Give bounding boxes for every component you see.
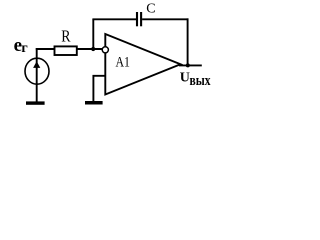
ground right xyxy=(85,101,103,105)
svg-text:C: C xyxy=(146,1,155,16)
svg-text:U: U xyxy=(180,71,190,86)
resistor R xyxy=(55,46,77,55)
wire feedback top left segment xyxy=(92,18,136,20)
wire output xyxy=(179,64,202,66)
wire feedback left vertical xyxy=(92,19,94,49)
wire non-inverting input xyxy=(93,76,104,101)
op-amp A1 triangle xyxy=(105,34,180,95)
label e_g (source EMF) xyxy=(14,35,28,56)
wire feedback right vertical xyxy=(187,18,189,65)
source arrow head xyxy=(33,61,40,68)
capacitor C plates xyxy=(137,12,141,26)
svg-text:R: R xyxy=(61,26,70,45)
label U_out xyxy=(180,71,211,89)
svg-text:г: г xyxy=(21,41,27,56)
junction node at inverting input xyxy=(91,47,95,51)
wire source vertical xyxy=(36,48,38,102)
svg-text:A1: A1 xyxy=(116,55,130,71)
wire source top horizontal to resistor xyxy=(36,48,55,50)
junction node at output xyxy=(186,63,190,67)
svg-text:вых: вых xyxy=(190,73,211,89)
wire resistor to op-amp input xyxy=(77,48,103,50)
wire feedback top right segment xyxy=(142,18,188,20)
ground left xyxy=(26,101,45,104)
inverting input circle xyxy=(102,47,108,53)
source generator circle xyxy=(25,58,49,84)
